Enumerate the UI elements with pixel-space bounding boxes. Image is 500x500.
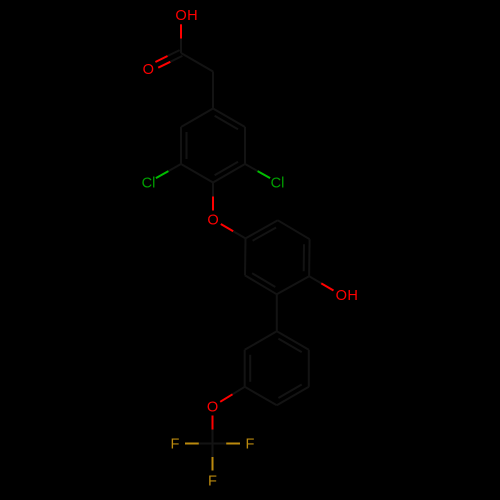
ring1 bond top-ur xyxy=(213,109,245,128)
svg-text:Cl: Cl xyxy=(271,175,285,191)
bond C-OH (acid) xyxy=(180,24,182,38)
ring1 inner aromatic line 0 xyxy=(215,116,238,130)
ring1 inner aromatic line 2 xyxy=(215,162,238,176)
svg-text:O: O xyxy=(143,62,154,78)
ring2 inner aromatic line 2 xyxy=(303,244,305,271)
ring1 bond ul-top xyxy=(181,109,213,128)
ring2 bond 1-2 xyxy=(278,220,310,239)
bond ring2-ring3 biphenyl xyxy=(276,294,278,331)
svg-text:O: O xyxy=(207,400,218,416)
ring2 bond 5-0 xyxy=(244,238,247,275)
svg-text:O: O xyxy=(336,288,347,304)
ring3 bond lr-bot xyxy=(277,387,309,406)
ring1 bond ll-ul xyxy=(180,127,182,164)
ring3 bond ll-ul xyxy=(244,350,246,387)
ring3 bond ur-lr xyxy=(308,350,310,387)
svg-text:F: F xyxy=(246,437,255,453)
svg-text:Cl: Cl xyxy=(142,175,156,191)
bond CH2-ring1 xyxy=(212,72,214,109)
svg-text:H: H xyxy=(187,8,198,24)
ring2 bond 4-5 xyxy=(245,275,277,294)
svg-text:O: O xyxy=(207,213,218,229)
svg-text:F: F xyxy=(208,474,217,490)
ring1 bond bot-ll xyxy=(181,164,213,183)
bond C(acid)-CH2 xyxy=(181,53,213,72)
bond ring1-O ether xyxy=(212,183,214,197)
ring3 inner aromatic line 0 xyxy=(278,339,301,353)
ring3 bond ul-top xyxy=(245,331,277,350)
bond C-Cl right xyxy=(245,164,258,171)
ring3 bond top-ur xyxy=(277,331,309,350)
svg-text:H: H xyxy=(347,288,358,304)
ring2 inner aromatic line 0 xyxy=(253,228,277,241)
svg-text:F: F xyxy=(171,437,180,453)
ring2 inner aromatic line 4 xyxy=(252,273,275,287)
ring3 inner aromatic line 2 xyxy=(278,385,301,399)
bond O ether-ring2 xyxy=(221,224,233,231)
ring1 bond lr-bot xyxy=(213,164,245,183)
bond O-C (OCF3) xyxy=(212,416,214,430)
svg-text:O: O xyxy=(175,8,186,24)
ring3 inner aromatic line 4 xyxy=(249,355,251,382)
ring1 bond ur-lr xyxy=(244,127,246,164)
bond C-F right xyxy=(213,443,227,445)
ring2 bond 0-1 xyxy=(246,220,278,238)
bond ring3-O (OCF3) xyxy=(233,387,245,395)
bond C-Cl left xyxy=(168,164,181,171)
ring1 inner aromatic line 4 xyxy=(186,132,188,159)
bond C-OH right xyxy=(309,276,321,283)
double bond C=O (carbonyl) xyxy=(168,50,180,56)
ring3 bond bot-ll xyxy=(245,387,277,406)
bond C-F left xyxy=(199,443,213,445)
bond C-F bottom xyxy=(212,444,214,458)
ring2 bond 2-3 xyxy=(308,239,311,276)
ring2 bond 3-4 xyxy=(277,276,309,294)
